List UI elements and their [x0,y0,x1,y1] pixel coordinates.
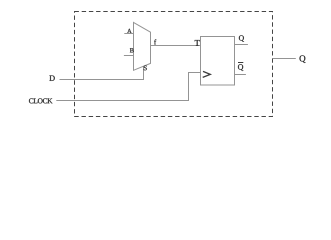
label CLOCK (input port) [29,98,53,103]
wire: mux input B stub [124,55,134,57]
dashed enclosure box [75,12,273,117]
overline of Qbar [238,62,243,64]
wire: flip-flop Q output stub [235,44,248,46]
wire: CLOCK input horizontal [56,100,189,102]
multiplexer U1 (trapezoid body) [134,22,151,70]
clock chevron > inside flip-flop [203,71,211,77]
wire: mux select S vertical [143,66,145,80]
T flip-flop U2 (rectangle body) [201,37,235,86]
label Q (external output port) [300,55,306,62]
wire: external Q output [273,58,296,60]
label Qbar (flip-flop output pin) [238,64,243,71]
label f (mux output) [154,39,156,44]
wire: mux output f to flip-flop T input [151,45,201,47]
wire: clock riser [188,72,190,101]
label B (mux input) [130,48,134,52]
wire: flip-flop Qbar output stub [235,74,246,76]
label S (mux select) [144,66,147,71]
label A (mux input) [127,29,131,33]
wire: clock entry into flip-flop [189,72,201,74]
wire: D input horizontal [60,79,145,81]
label D (input port) [49,75,54,80]
wire: mux input A stub [124,33,133,35]
label Q (flip-flop output pin) [239,35,244,41]
label T (flip-flop input pin) [195,40,200,46]
